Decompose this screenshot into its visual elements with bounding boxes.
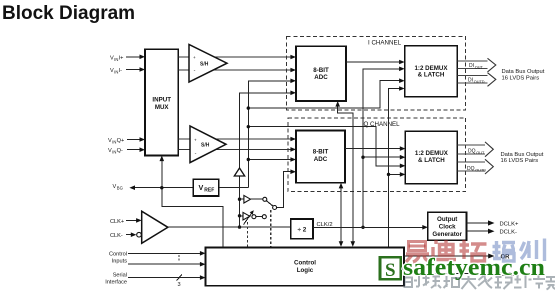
svg-text:8-BIT: 8-BIT xyxy=(313,149,329,156)
junction dot v161 vbg xyxy=(160,186,163,189)
svg-text:S/H: S/H xyxy=(201,143,210,149)
wire mux to I-ADC line1 xyxy=(178,56,291,58)
svg-text:+: + xyxy=(194,137,197,142)
watermark gray chinese 射频和天线设计专家 xyxy=(405,276,555,290)
wire Q-ADC out to Q-DEMUX in1 xyxy=(345,148,401,150)
svg-text:16 LVDS Pairs: 16 LVDS Pairs xyxy=(501,158,539,164)
svg-text:I CHANNEL: I CHANNEL xyxy=(368,40,402,47)
svg-text:Logic: Logic xyxy=(297,267,314,274)
svg-text:Data Bus Output: Data Bus Output xyxy=(502,69,545,75)
svg-text:DCLK-: DCLK- xyxy=(500,230,517,236)
wire bias v161 mux arrow down to control xyxy=(162,160,223,247)
svg-text:DI: DI xyxy=(469,63,474,69)
svg-text:DQ: DQ xyxy=(468,149,476,155)
svg-text:ADC: ADC xyxy=(314,74,328,81)
wire switch to Q-ADC in4 xyxy=(277,172,292,208)
svg-text:OUT: OUT xyxy=(475,66,484,70)
junction dot v363 clk2 xyxy=(361,226,364,229)
svg-text:OUTD: OUTD xyxy=(475,168,486,172)
Control Logic block xyxy=(206,248,405,286)
op-amp S/H I xyxy=(189,45,227,83)
op-amp S/H Q xyxy=(190,126,226,163)
bus arrow DQ OUTD xyxy=(457,162,485,171)
watermark red chinese 易迪拓 xyxy=(406,240,487,262)
wire clock riser v239 to I-ADC in4 xyxy=(240,93,292,227)
wire branchA vref to I-DEMUX in3 xyxy=(248,81,400,108)
bus arrow DQ OUT xyxy=(457,145,485,154)
svg-text:Serial: Serial xyxy=(113,272,127,278)
junction dot v363 Q demux xyxy=(361,156,364,159)
Q CHANNEL dashed box xyxy=(288,118,466,192)
svg-text:Control: Control xyxy=(294,260,316,267)
8-BIT ADC I block xyxy=(296,46,346,101)
wire vref riser v248 xyxy=(248,81,291,188)
dashed control line 2 xyxy=(270,210,272,247)
svg-text:Generator: Generator xyxy=(432,231,462,238)
wire branchB vref to Q-DEMUX in3 xyxy=(248,127,401,166)
wire CLK+ xyxy=(126,219,137,221)
watermark tick between logo and text xyxy=(401,268,405,270)
input label VinQ+ xyxy=(108,138,124,145)
wire OR output xyxy=(404,255,490,257)
svg-text:DQ: DQ xyxy=(467,166,475,172)
svg-text:CLK-: CLK- xyxy=(110,233,123,239)
svg-text:V: V xyxy=(199,183,204,192)
wire VinQ+ xyxy=(127,139,141,141)
bus slash 3 xyxy=(177,274,183,281)
wire v388 I-DEMUX in4 down to control xyxy=(389,89,402,248)
wire clock riser v363 to demux xyxy=(363,69,401,228)
svg-text:DCLK+: DCLK+ xyxy=(500,221,519,227)
svg-text:safetyemc.cn: safetyemc.cn xyxy=(403,255,545,281)
svg-text:MUX: MUX xyxy=(155,104,170,111)
wire CLK/2 to OCG xyxy=(313,226,424,228)
I CHANNEL label xyxy=(366,39,402,47)
watermark blue chinese 培训 xyxy=(493,239,545,262)
svg-text:16 LVDS Pairs: 16 LVDS Pairs xyxy=(502,75,540,81)
svg-text:+: + xyxy=(193,55,196,60)
svg-text:& LATCH: & LATCH xyxy=(418,157,445,164)
wire mux to I-ADC line2 xyxy=(178,69,291,71)
wire VinQ- xyxy=(127,149,141,151)
clock input buffer triangle xyxy=(142,211,168,243)
wire VBG output xyxy=(134,187,193,189)
bus arrow DI OUT xyxy=(457,61,487,68)
watermark logo square S xyxy=(380,257,401,281)
wire DCLK+ xyxy=(467,222,490,224)
svg-text:Interface: Interface xyxy=(105,279,127,285)
bus arrow DI OUTD xyxy=(457,76,487,84)
wire VinI- xyxy=(126,69,141,71)
input label VinI- xyxy=(110,68,122,75)
svg-text:Q-: Q- xyxy=(117,148,123,154)
wire VinI+ xyxy=(126,56,141,58)
svg-text:Data Bus Output: Data Bus Output xyxy=(501,152,544,158)
junction dots on v239 xyxy=(238,198,241,201)
wire control input 1 xyxy=(128,252,201,254)
svg-text:I-: I- xyxy=(119,68,123,74)
I CHANNEL dashed box xyxy=(287,37,466,110)
wire mux to Q-ADC line2 xyxy=(178,148,291,150)
junction dot v388 Q demux in4 xyxy=(387,173,390,176)
Output Clock Generator block xyxy=(428,212,467,240)
Q CHANNEL label xyxy=(362,120,400,128)
svg-text:DI: DI xyxy=(468,78,473,84)
svg-text:-: - xyxy=(195,150,197,156)
wire CLK- with bubble xyxy=(126,234,133,236)
svg-text:CLK+: CLK+ xyxy=(110,219,124,225)
VREF block xyxy=(193,179,219,196)
svg-text:REF: REF xyxy=(204,188,214,194)
phase buffer 1 xyxy=(240,195,277,209)
svg-text:I+: I+ xyxy=(119,55,124,61)
svg-text:S/H: S/H xyxy=(200,62,209,68)
svg-text:Inputs: Inputs xyxy=(112,259,127,265)
svg-text:-: - xyxy=(194,68,196,74)
wire cal up into I-ADC and down to control xyxy=(338,106,353,243)
8-BIT ADC Q block xyxy=(296,131,345,183)
wire branchC vref to Q-ADC in3 xyxy=(248,159,291,161)
svg-text:INPUT: INPUT xyxy=(152,97,171,104)
svg-text:S: S xyxy=(385,260,396,281)
svg-text:Clock: Clock xyxy=(439,223,456,230)
wire cal up into Q-ADC and down to control xyxy=(340,188,342,243)
phase buffer 2 variable xyxy=(240,210,267,224)
wire VREF out to riser xyxy=(219,187,248,189)
svg-text:Control: Control xyxy=(109,252,127,258)
svg-text:ADC: ADC xyxy=(314,156,328,163)
svg-text:OUTD: OUTD xyxy=(474,80,485,84)
input label VinI+ xyxy=(110,55,123,62)
svg-text:OUT: OUT xyxy=(476,151,485,155)
wire I-ADC out to I-DEMUX in1 xyxy=(346,61,401,63)
svg-text:÷ 2: ÷ 2 xyxy=(297,226,306,233)
svg-text:Q+: Q+ xyxy=(117,138,125,144)
svg-text:Output: Output xyxy=(437,216,457,223)
svg-text:Block Diagram: Block Diagram xyxy=(2,3,135,24)
divide by 2 block xyxy=(291,219,313,239)
dashed control line 1 xyxy=(246,222,248,247)
wire clock out to div2 xyxy=(168,226,291,228)
svg-text:BG: BG xyxy=(117,186,123,191)
wire DCLK- xyxy=(467,230,490,232)
wire serial interface xyxy=(128,277,201,279)
wire control input 2 xyxy=(128,263,201,265)
dashed ellipsis between control inputs xyxy=(178,255,180,263)
1:2 DEMUX & LATCH Q block xyxy=(405,131,457,183)
1:2 DEMUX & LATCH I block xyxy=(405,46,458,97)
wire CalRun output xyxy=(404,273,490,275)
junction dots on v248 xyxy=(247,106,250,109)
clock buffer triangle on v239 xyxy=(234,168,244,176)
VBG label xyxy=(113,184,123,191)
INPUT MUX block xyxy=(145,49,178,155)
wire mux to Q-ADC line1 xyxy=(178,138,291,140)
svg-text:3: 3 xyxy=(178,282,181,288)
input label VinQ- xyxy=(108,148,123,155)
svg-text:& LATCH: & LATCH xyxy=(418,71,445,78)
